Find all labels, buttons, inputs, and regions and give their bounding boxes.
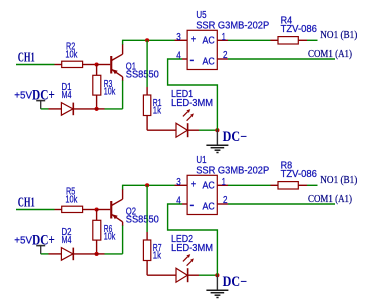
ground bbox=[206, 275, 228, 297]
node junction R3/D1/emitter bbox=[95, 107, 99, 111]
svg-text:DC−: DC− bbox=[223, 274, 247, 290]
wire LED to DC- node bbox=[199, 274, 217, 276]
svg-text:AC: AC bbox=[203, 57, 215, 68]
node junction R6/D2/emitter bbox=[95, 252, 99, 256]
svg-text:1k: 1k bbox=[153, 251, 161, 262]
resistor R7 1k bbox=[143, 232, 176, 275]
svg-text:SS8550: SS8550 bbox=[126, 215, 160, 226]
wire CH1 to R5 bbox=[16, 209, 55, 211]
wire junction to emitter bbox=[97, 253, 105, 255]
pin 3 bbox=[175, 39, 188, 41]
svg-text:+5V: +5V bbox=[14, 91, 32, 102]
wire pin 1 to R4 bbox=[228, 39, 271, 41]
svg-text:3: 3 bbox=[176, 32, 181, 43]
svg-text:2: 2 bbox=[223, 50, 228, 61]
wire to NO1 bbox=[307, 184, 318, 186]
wire pin 2 to COM1 bbox=[228, 203, 335, 205]
wire junction to emitter bbox=[97, 108, 105, 110]
pin 1 bbox=[217, 184, 228, 186]
pin 3 bbox=[175, 184, 188, 186]
wire rail to R7 bbox=[146, 185, 148, 232]
svg-text:10k: 10k bbox=[65, 49, 77, 60]
node junction rail/R1 bbox=[145, 38, 149, 42]
wire to NO1 bbox=[307, 39, 318, 41]
svg-text:NO1 (B1): NO1 (B1) bbox=[320, 30, 357, 41]
svg-text:COM1 (A1): COM1 (A1) bbox=[308, 194, 352, 205]
pin 2 bbox=[217, 203, 228, 205]
svg-text:4: 4 bbox=[176, 196, 181, 207]
pin 4 bbox=[182, 58, 187, 60]
resistor R6 10k bbox=[93, 210, 116, 254]
LED LED2 LED-3MM bbox=[171, 234, 213, 282]
wire emitter down bbox=[122, 226, 124, 254]
svg-text:COM1 (A1): COM1 (A1) bbox=[308, 49, 352, 60]
resistor R3 10k bbox=[93, 65, 116, 109]
svg-text:10k: 10k bbox=[104, 87, 116, 98]
svg-text:SS8550: SS8550 bbox=[126, 70, 160, 81]
svg-text:LED-3MM: LED-3MM bbox=[171, 98, 213, 109]
node junction rail/R7 bbox=[145, 183, 149, 187]
resistor R4 TZV-086 bbox=[271, 16, 317, 45]
node +5VDC+ power port bbox=[14, 87, 55, 109]
svg-text:NO1 (B1): NO1 (B1) bbox=[320, 175, 357, 186]
transistor Q1 SS8550 bbox=[110, 44, 159, 81]
svg-text:1: 1 bbox=[222, 32, 226, 43]
diode D2 M4 bbox=[49, 227, 97, 260]
svg-text:LED-3MM: LED-3MM bbox=[171, 243, 213, 254]
wire collector to rail bbox=[122, 40, 124, 45]
pin 2 bbox=[217, 58, 228, 60]
resistor R8 TZV-086 bbox=[271, 161, 317, 190]
svg-text:1: 1 bbox=[222, 177, 226, 188]
node junction base/R5/R6 bbox=[95, 207, 99, 211]
relay part U1 SSR G3MB-202P bbox=[187, 155, 269, 214]
svg-text:CH1: CH1 bbox=[18, 49, 35, 64]
svg-text:2: 2 bbox=[223, 195, 228, 206]
wire pin 1 to R8 bbox=[228, 184, 271, 186]
wire pin 4 bypass to LED node bbox=[168, 59, 218, 130]
svg-text:TZV-086: TZV-086 bbox=[281, 24, 317, 35]
svg-text:M4: M4 bbox=[62, 90, 72, 101]
svg-text:+: + bbox=[191, 35, 197, 46]
wire collector to rail bbox=[122, 185, 124, 190]
wire LED to DC- node bbox=[199, 129, 217, 131]
node junction base/R2/R3 bbox=[95, 62, 99, 66]
svg-text:10k: 10k bbox=[65, 194, 77, 205]
node junction LED/ground bbox=[215, 128, 219, 132]
wire rail to R1 bbox=[146, 40, 148, 87]
transistor Q2 SS8550 bbox=[110, 189, 159, 226]
node +5VDC+ power port bbox=[14, 232, 55, 254]
svg-text:AC: AC bbox=[203, 35, 215, 46]
diode D1 M4 bbox=[49, 82, 97, 115]
svg-text:SSR G3MB-202P: SSR G3MB-202P bbox=[196, 20, 269, 31]
wire power port to D2 bbox=[41, 253, 49, 255]
svg-text:1k: 1k bbox=[153, 106, 161, 117]
svg-text:+: + bbox=[191, 180, 197, 191]
resistor R1 1k bbox=[143, 87, 176, 130]
svg-text:TZV-086: TZV-086 bbox=[281, 169, 317, 180]
svg-text:3: 3 bbox=[176, 177, 181, 188]
node junction LED/ground bbox=[215, 273, 219, 277]
ground bbox=[206, 130, 228, 152]
LED LED1 LED-3MM bbox=[171, 89, 213, 137]
resistor R2 10k bbox=[55, 42, 97, 68]
svg-text:AC: AC bbox=[203, 202, 215, 213]
resistor R5 10k bbox=[55, 187, 97, 213]
wire emitter down bbox=[122, 81, 124, 109]
svg-text:10k: 10k bbox=[104, 232, 116, 243]
wire top rail bbox=[123, 39, 175, 41]
wire base of Q2 bbox=[97, 209, 111, 211]
wire top rail bbox=[123, 184, 175, 186]
svg-text:CH1: CH1 bbox=[18, 194, 35, 209]
svg-text:+5V: +5V bbox=[14, 236, 32, 247]
pin 4 bbox=[182, 203, 187, 205]
svg-text:AC: AC bbox=[203, 180, 215, 191]
wire CH1 to R2 bbox=[16, 64, 55, 66]
wire power port to D1 bbox=[41, 108, 49, 110]
svg-text:SSR G3MB-202P: SSR G3MB-202P bbox=[196, 165, 269, 176]
wire base of Q1 bbox=[97, 64, 111, 66]
relay part U5 SSR G3MB-202P bbox=[187, 10, 269, 69]
wire pin 4 bypass to LED node bbox=[168, 204, 218, 275]
pin 1 bbox=[217, 39, 228, 41]
svg-text:DC−: DC− bbox=[223, 129, 247, 145]
svg-text:4: 4 bbox=[176, 51, 181, 62]
svg-text:M4: M4 bbox=[62, 235, 72, 246]
wire pin 2 to COM1 bbox=[228, 58, 335, 60]
